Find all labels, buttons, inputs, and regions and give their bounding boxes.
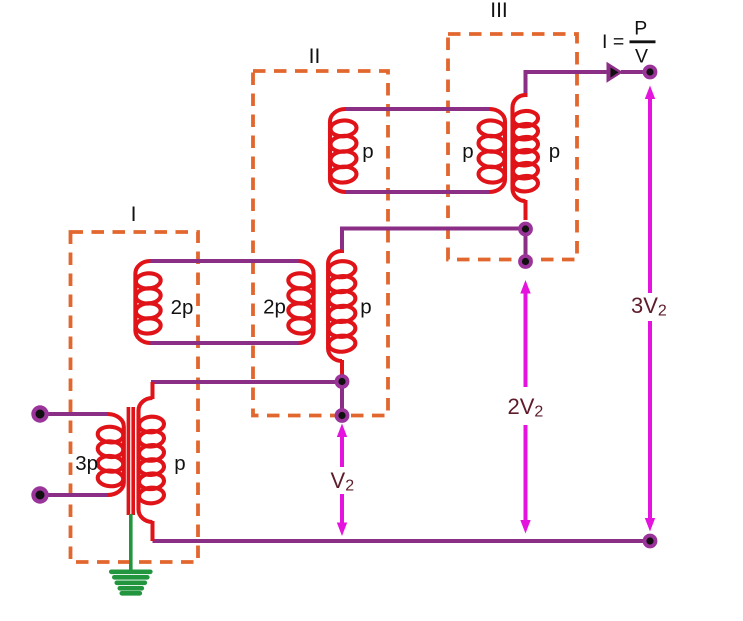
svg-text:p: p — [462, 140, 473, 163]
svg-text:p: p — [549, 140, 560, 163]
svg-text:2V2: 2V2 — [508, 394, 544, 421]
svg-text:II: II — [309, 45, 321, 68]
label stage I — [131, 203, 137, 226]
input terminal top — [31, 405, 48, 422]
arrow 3V2 upper — [645, 86, 655, 294]
label stage III — [490, 0, 508, 22]
node E (output terminal top right) — [643, 65, 658, 80]
current direction arrowhead — [607, 62, 624, 83]
label p (II secondary) — [360, 296, 371, 319]
svg-text:2p: 2p — [263, 296, 286, 319]
node D (stage2 terminal on box edge) — [518, 254, 533, 269]
svg-text:I: I — [131, 203, 137, 226]
arrow V2 upper — [337, 424, 347, 468]
wire T1 secondary top to node A — [151, 380, 342, 384]
arrow 2V2 lower — [520, 425, 530, 534]
transformer stage box I (dashed) — [71, 232, 199, 562]
svg-text:V: V — [635, 45, 648, 67]
ground symbol — [111, 572, 150, 594]
svg-text:I =: I = — [602, 31, 624, 53]
wire input bottom — [40, 493, 108, 497]
svg-text:V2: V2 — [331, 468, 355, 495]
label V2 — [331, 468, 355, 495]
wire 2p link top — [150, 259, 299, 263]
winding 2p (transformer I tertiary) — [135, 261, 161, 343]
label 3p — [75, 452, 98, 475]
label p (III primary) — [462, 140, 473, 163]
wire 2p link bottom — [150, 341, 299, 345]
winding p (transformer III primary) — [478, 109, 505, 192]
svg-text:P: P — [634, 17, 647, 39]
node B (stage1 terminal on box edge) — [335, 408, 350, 423]
transformer stage box III (dashed) — [448, 34, 577, 260]
svg-text:3p: 3p — [75, 452, 98, 475]
winding 2p (transformer II excitation) — [288, 261, 314, 343]
ground wire (green) — [129, 514, 133, 572]
wire node C to node D — [524, 227, 528, 262]
label p (II link) — [362, 140, 373, 163]
label p (III secondary) — [549, 140, 560, 163]
node C (junction stage2 output) — [518, 222, 533, 237]
arrow 2V2 upper — [520, 280, 530, 387]
label 3V2 — [631, 293, 667, 320]
svg-text:p: p — [362, 140, 373, 163]
wire p link top — [345, 107, 490, 111]
svg-text:p: p — [174, 452, 185, 475]
wire T3 secondary to output — [526, 72, 607, 95]
node F (bottom right terminal) — [643, 534, 658, 549]
transformer stage box II (dashed) — [253, 71, 388, 416]
winding p (transformer III secondary) — [512, 93, 538, 220]
wire arrowhead to node E — [621, 70, 650, 74]
wire p link bottom — [345, 190, 490, 194]
label stage II — [309, 45, 321, 68]
wire bottom return — [153, 539, 651, 543]
svg-text:3V2: 3V2 — [631, 293, 667, 320]
label 2V2 — [508, 394, 544, 421]
svg-text:p: p — [360, 296, 371, 319]
arrow 3V2 lower — [645, 321, 655, 532]
label 2p (II excitation) — [263, 296, 286, 319]
winding p (transformer II secondary) — [328, 250, 356, 378]
wire node A to node B — [340, 380, 344, 416]
svg-text:III: III — [490, 0, 508, 22]
winding p (transformer II tertiary link) — [330, 109, 357, 192]
label 2p (I tertiary) — [171, 296, 194, 319]
wire input top — [40, 412, 108, 416]
input terminal bottom — [31, 486, 48, 503]
winding 3p (transformer I primary) — [97, 414, 124, 495]
winding p (transformer I secondary) — [138, 382, 164, 541]
label p (I secondary) — [174, 452, 185, 475]
node A (junction stage1 output) — [335, 374, 350, 389]
core of transformer I — [128, 407, 133, 515]
wire T2 secondary top run — [342, 229, 526, 252]
arrow V2 lower — [337, 494, 347, 536]
svg-text:2p: 2p — [171, 296, 194, 319]
formula I = P/V — [602, 17, 656, 67]
